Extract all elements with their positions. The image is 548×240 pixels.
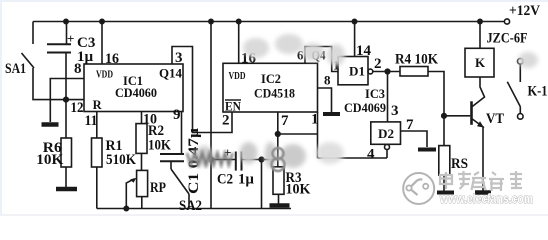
svg-text:CD4518: CD4518 [254,86,295,101]
svg-text:www.elecfans.com: www.elecfans.com [439,191,533,206]
svg-text:10: 10 [143,112,157,128]
svg-text:VT: VT [486,111,504,127]
svg-text:IC3: IC3 [365,87,385,101]
wire IC2 pin7 lead [277,112,279,167]
node rail-D1 pin14 junction [352,19,356,23]
node rail-C3 junction [64,19,68,23]
svg-text:K: K [475,55,486,70]
ground VT emitter [475,190,491,195]
wire IC2 pin16 VDD [238,22,240,64]
switch SA2 [171,169,189,194]
wire D2 input pin3 [387,72,389,122]
wire to C2 [211,159,235,161]
resistor R3 [273,167,284,195]
contact K-1 [518,59,524,65]
node rail top junction [209,19,213,23]
svg-text:VDD: VDD [229,70,246,82]
svg-text:8: 8 [74,61,82,77]
potentiometer RP [137,170,148,196]
wire IC2 pin6 Q4 bracket to D1 input pin1 [305,47,338,72]
transistor VT [470,101,473,125]
svg-text:SA1: SA1 [5,61,26,77]
svg-text:2: 2 [222,113,230,129]
svg-text:R4 10K: R4 10K [395,52,438,68]
resistor R2 [136,124,147,154]
svg-text:12: 12 [71,100,84,116]
svg-text:IC2: IC2 [261,72,281,86]
wire D1 output node [373,71,400,73]
wire D1 pin14 VDD [354,22,356,57]
wire C2 node to R3 column [262,159,278,161]
page edge tint strips [0,0,548,2]
svg-text:11: 11 [85,113,98,129]
svg-text:SA2: SA2 [179,198,202,214]
svg-text:9: 9 [173,107,181,123]
capacitor C3 [66,22,68,45]
svg-text:14: 14 [356,43,372,59]
relay K box [465,48,494,77]
svg-text:CD4069: CD4069 [344,100,386,115]
resistor RS [443,116,445,146]
wire D2 output pin4 to pin1 node [318,157,388,159]
svg-text:D2: D2 [378,127,394,141]
ground IC3 pin7 [418,148,436,152]
node C3/SA1/R6/pin12 junction [64,97,69,102]
wire IC3 pin7 to ground [401,131,428,147]
resistor R4 [400,67,428,77]
svg-text:16: 16 [105,51,119,67]
svg-text:1µ: 1µ [238,172,254,188]
inverter D2 box [371,122,401,144]
svg-text:RP: RP [150,180,166,196]
wire top +12V rail [33,21,504,23]
wire RP wiper arrow [126,179,134,209]
svg-text:EN: EN [225,100,241,114]
switch SA1 [22,53,35,68]
node rail-K junction [478,19,482,23]
svg-text:JZC-6F: JZC-6F [487,31,528,47]
svg-text:C2: C2 [217,172,233,188]
capacitor C2 [235,152,237,171]
svg-text:RS: RS [451,156,468,172]
wire IC2 pin1 lead [317,112,319,158]
watermark CJK glyphs imitation [440,171,522,191]
elecfans logo circle [403,173,434,204]
svg-text:K-1: K-1 [528,83,548,99]
inverter D1 box [338,57,368,85]
node C2 right junction [259,157,264,162]
ground below RS [437,191,454,195]
svg-text:4: 4 [367,147,375,163]
svg-text:510K: 510K [106,152,136,168]
ground below R3 [270,203,290,208]
wire VT emitter to ground [482,128,484,191]
svg-text:8: 8 [324,73,331,88]
wire IC1 pin8 to ground [50,79,84,123]
resistor R1 [92,138,103,167]
svg-text:D1: D1 [349,65,365,79]
svg-text:10K: 10K [148,138,171,154]
EN overline [225,99,241,101]
wire pin7 to pin1 node [278,133,318,135]
ground below R6 [56,187,77,192]
svg-text:VDD: VDD [96,69,113,81]
resistor R6 [65,100,67,139]
wire rail to C2 node [210,22,212,209]
wire IC1 pin10 lead [141,112,143,124]
IC U2 IC2 CD4518 box [223,63,318,112]
D2 output bubble pin4 [385,145,390,150]
node pin7 junction [276,132,281,137]
wire SA1 top lead [32,22,34,45]
svg-text:+: + [67,31,74,46]
svg-text:CD4060: CD4060 [115,85,157,100]
wire R4 to VT base node [428,72,444,116]
wire relay K to rail [479,22,481,49]
node rail-IC2 pin16 junction [237,19,241,23]
ground IC1 pin8 [42,122,59,127]
svg-text:1: 1 [311,112,319,128]
svg-text:3: 3 [391,103,399,119]
node base-RS junction [442,114,447,119]
terminal +12V open circle [504,19,509,24]
wire Q14 pin3 bracket to IC2 EN pin2 [172,47,232,133]
watermark blobs and logo [187,34,538,206]
node C2 branch junction [209,157,214,162]
wire IC1 pin16 VDD [101,22,103,65]
svg-text:10K: 10K [286,182,311,198]
node RP wiper-rail junction [124,206,128,210]
D1 output bubble pin2 [368,69,373,74]
wire SA1 bottom lead [33,68,84,100]
wire IC1 pin11 lead [96,112,98,139]
wire bottom rail [97,208,291,210]
ground IC2 pin8 [323,112,340,116]
IC U1 IC1 CD4060 box [84,64,183,112]
wire IC2 pin8 to ground [318,88,332,112]
svg-text:2: 2 [374,56,382,72]
svg-text:3: 3 [175,50,183,66]
svg-text:7: 7 [406,117,414,133]
svg-text:+12V: +12V [509,3,540,19]
node D1 out junction [385,69,390,74]
svg-text:7: 7 [281,113,289,129]
wire IC1 pin9 lead [181,112,183,154]
capacitor C1 [160,153,184,155]
wire VT base [444,115,470,117]
svg-text:10K: 10K [36,152,63,168]
svg-text:Q14: Q14 [159,67,183,81]
node rail-pin16 junction [100,19,104,23]
svg-text:R: R [93,98,103,112]
